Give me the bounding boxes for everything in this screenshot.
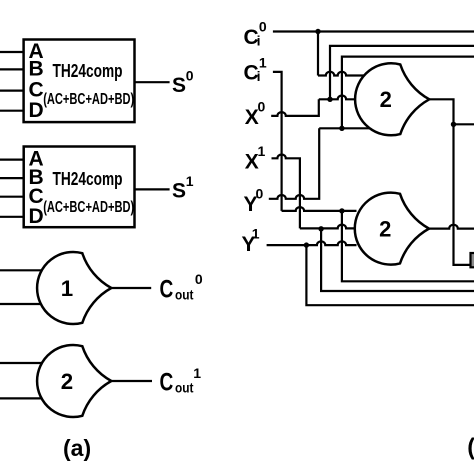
TH24comp box U1 — [24, 40, 135, 123]
wire box2 input B — [0, 177, 24, 179]
wire feedback line B top — [342, 57, 474, 129]
svg-text:out: out — [175, 288, 194, 303]
wire Y1 net bottom distribution — [306, 245, 474, 305]
wire gate2b output with hop — [429, 225, 474, 229]
svg-text:D: D — [29, 205, 44, 228]
node junction Ci1 line — [339, 208, 344, 213]
svg-text:C: C — [160, 276, 174, 304]
wire Ci1 down and to lower gate — [273, 72, 357, 211]
node junction Ci0 — [315, 29, 320, 34]
wire X1 net bottom distribution — [321, 229, 474, 291]
wire gate1a input bottom — [0, 303, 46, 305]
svg-text:2: 2 — [379, 217, 391, 242]
svg-text:S: S — [172, 74, 186, 97]
svg-text:D: D — [29, 99, 44, 122]
wire box1 input B — [0, 68, 24, 70]
wire box2 input C — [0, 196, 24, 198]
node junction X0 line — [327, 97, 332, 102]
wire box1 input A — [0, 51, 24, 53]
svg-text:(b: (b — [467, 434, 474, 460]
wire gate2a input top — [0, 362, 46, 364]
svg-text:1: 1 — [252, 226, 260, 242]
wire output Cout1 — [111, 380, 152, 382]
svg-text:TH24comp: TH24comp — [53, 61, 123, 81]
wire output Cout0 — [111, 287, 151, 289]
wire Y0 jog up to gate1b bottom input — [269, 128, 370, 199]
wire output S0 — [135, 81, 170, 83]
node junction X1 line — [318, 226, 323, 231]
wire box1 input C — [0, 89, 24, 91]
svg-text:0: 0 — [186, 67, 194, 83]
svg-text:B: B — [29, 58, 44, 81]
wire gate2a input bottom — [0, 397, 46, 399]
threshold gate 2 upper (b) — [355, 63, 429, 135]
svg-text:0: 0 — [259, 19, 267, 35]
svg-text:(AC+BC+AD+BD): (AC+BC+AD+BD) — [43, 91, 134, 108]
wire box2 input A — [0, 159, 24, 161]
threshold gate 2 lower (b) — [355, 193, 429, 265]
svg-text:1: 1 — [186, 173, 194, 189]
gray box at right edge — [471, 253, 474, 267]
wire gate1a input top — [0, 269, 46, 271]
svg-text:2: 2 — [61, 369, 73, 394]
wire output S1 — [135, 188, 170, 190]
wire gate1b output to right — [429, 99, 470, 265]
wire X1 down and into lower gate middle input — [272, 155, 355, 229]
svg-text:1: 1 — [259, 55, 267, 71]
node junction gate1b output branch — [451, 122, 456, 127]
node junction Y1 line — [304, 242, 309, 247]
wire Ci1 net bottom distribution — [342, 211, 474, 281]
svg-text:out: out — [175, 380, 194, 395]
svg-text:2: 2 — [380, 87, 392, 112]
wire Y1 into lower gate bottom input — [267, 241, 357, 245]
svg-text:S: S — [172, 180, 186, 203]
svg-text:(a): (a) — [63, 435, 91, 461]
node junction Y0 line — [339, 126, 344, 131]
svg-text:1: 1 — [258, 143, 266, 159]
svg-text:0: 0 — [256, 186, 264, 202]
wire box1 input D — [0, 110, 24, 112]
wire branch right from output vertical — [454, 123, 474, 125]
wire feedback line A top — [330, 46, 474, 99]
svg-text:1: 1 — [61, 276, 73, 301]
svg-text:0: 0 — [195, 271, 203, 287]
svg-text:0: 0 — [258, 99, 266, 115]
svg-text:1: 1 — [193, 365, 201, 381]
wire X0 with jog up into gate1b — [271, 96, 356, 116]
TH24comp box U2 — [24, 147, 135, 228]
svg-text:(AC+BC+AD+BD): (AC+BC+AD+BD) — [43, 199, 134, 216]
threshold gate 1 (Cout0) — [37, 252, 111, 324]
wire box2 input D — [0, 216, 24, 218]
svg-text:i: i — [257, 33, 261, 49]
svg-text:TH24comp: TH24comp — [53, 169, 123, 189]
wire Ci0 drop to gate top input with hops — [318, 32, 364, 76]
threshold gate 2 (Cout1) — [37, 345, 111, 417]
wire Ci0 — [273, 30, 474, 32]
svg-text:C: C — [160, 368, 174, 396]
